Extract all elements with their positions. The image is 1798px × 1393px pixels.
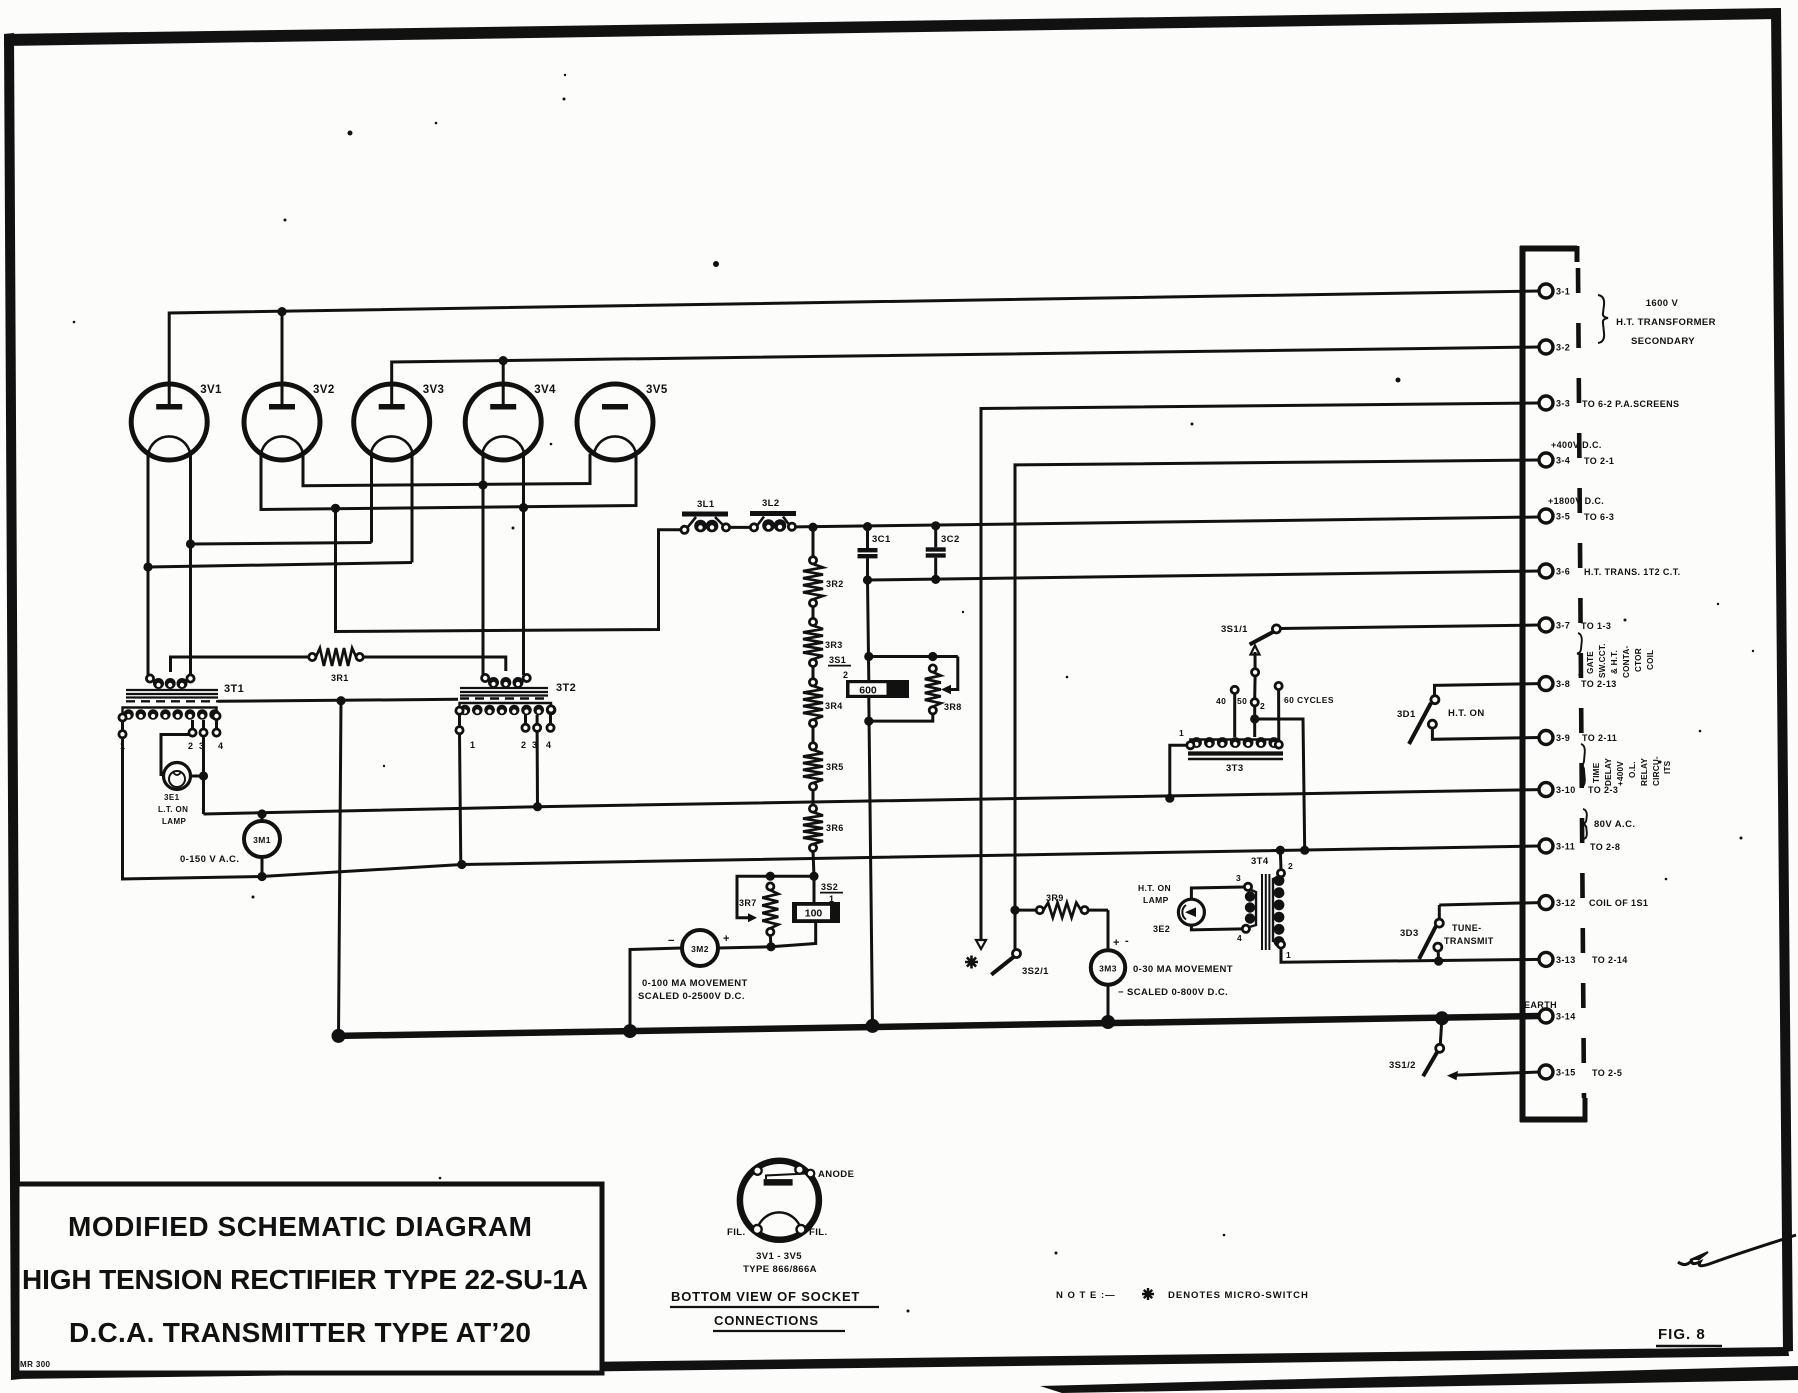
svg-text:1600 V: 1600 V <box>1646 298 1679 309</box>
svg-text:TO 2-5: TO 2-5 <box>1592 1068 1622 1078</box>
svg-text:2: 2 <box>521 740 526 750</box>
meter 3M2 (0-100 mA) <box>630 930 771 1031</box>
transformer 3T4 secondary winding <box>1273 861 1293 960</box>
transformer 3T3 tap 60 <box>1275 682 1334 741</box>
label: 1600V H.T. transformer secondary (3-1/3-2) <box>1598 295 1716 347</box>
wire: 3M1 top lead <box>257 809 266 821</box>
svg-text:3-7: 3-7 <box>1556 621 1570 631</box>
relay coil 3S1/2 (600 ohm) <box>828 655 909 698</box>
terminal 3-10 <box>1539 783 1576 797</box>
svg-text:4: 4 <box>1237 933 1242 943</box>
svg-text:L.T. ON: L.T. ON <box>158 805 188 814</box>
svg-text:3V4: 3V4 <box>534 384 556 396</box>
transformer 3T2 secondary winding <box>456 703 556 715</box>
svg-text:H.T. TRANS. 1T2 C.T.: H.T. TRANS. 1T2 C.T. <box>1584 567 1681 577</box>
terminal 3-12 <box>1539 896 1576 910</box>
3T2 secondary tap 3 <box>532 715 541 750</box>
wire: 3L1 to 3L2 <box>730 526 751 529</box>
resistor 3R3 <box>803 607 843 667</box>
svg-text:TO 1-3: TO 1-3 <box>1581 621 1611 631</box>
terminal 3-6 <box>1539 564 1570 578</box>
rectifier valve 3V1 <box>131 384 222 460</box>
svg-text:CTOR: CTOR <box>1634 648 1643 672</box>
transformer 3T4 core <box>1251 856 1269 950</box>
svg-text:3-12: 3-12 <box>1556 898 1576 908</box>
svg-text:TYPE 866/866A: TYPE 866/866A <box>743 1264 817 1275</box>
svg-text:3S2/1: 3S2/1 <box>1022 966 1049 977</box>
wire: terminal 3-3 line down to micro-switch contact <box>976 403 1539 949</box>
svg-text:3T3: 3T3 <box>1226 763 1244 774</box>
svg-text:TO 6-3: TO 6-3 <box>1584 512 1614 522</box>
svg-text:TO 2-14: TO 2-14 <box>1592 955 1628 965</box>
svg-text:3-1: 3-1 <box>1556 287 1570 297</box>
svg-text:CONTA-: CONTA- <box>1622 646 1631 678</box>
svg-text:TO 2-3: TO 2-3 <box>1588 785 1618 795</box>
svg-text:3M3: 3M3 <box>1099 964 1117 974</box>
wire: 3M1 bottom lead <box>257 857 266 881</box>
svg-text:3V1: 3V1 <box>200 384 222 396</box>
svg-text:3R3: 3R3 <box>825 640 843 650</box>
transformer 3T3 core <box>1188 754 1283 775</box>
terminal 3-13 <box>1539 952 1576 966</box>
resistor 3R8 (shunt rheostat) <box>864 652 962 726</box>
wire: chain bottom junction <box>766 872 819 881</box>
terminal 3-9 <box>1539 731 1570 745</box>
svg-text:+400V: +400V <box>1616 761 1625 786</box>
3T2 secondary tap 4 <box>546 714 554 750</box>
svg-text:TO 2-13: TO 2-13 <box>1581 679 1617 689</box>
wire: 3T2 tap1 down to 3-11 line <box>457 734 466 869</box>
terminal 3-5 <box>1539 509 1570 523</box>
svg-text:2: 2 <box>1288 861 1293 871</box>
transformer 3T1 core <box>126 683 244 701</box>
svg-text:3D1: 3D1 <box>1397 709 1416 720</box>
wire: 3C1 branch down through coil 3S1/2 to earth bus <box>864 580 873 1026</box>
svg-text:40: 40 <box>1216 696 1226 706</box>
resistor 3R4 <box>803 667 843 743</box>
switch 3S1/2 (earth to 3-15 arrow) <box>1389 1018 1539 1080</box>
micro-switch symbol (asterisk) <box>965 956 978 969</box>
svg-text:3R2: 3R2 <box>826 579 844 589</box>
resistor 3R5 <box>803 743 844 791</box>
svg-text:1: 1 <box>829 894 834 904</box>
svg-text:− SCALED 0-800V D.C.: − SCALED 0-800V D.C. <box>1118 987 1228 998</box>
wire: 3T3 centre tap junction down to 3-11 line <box>1255 719 1310 855</box>
label: bottom view of socket connections <box>670 1289 879 1331</box>
choke 3L1 <box>681 499 730 533</box>
brace 3-9/3-10 <box>1580 744 1585 787</box>
svg-text:3-9: 3-9 <box>1556 733 1570 743</box>
terminal 3-3 <box>1539 396 1570 410</box>
svg-text:EARTH: EARTH <box>1524 1000 1557 1010</box>
svg-text:3T1: 3T1 <box>224 683 244 695</box>
earth bus wire to terminal 3-14 <box>332 1011 1540 1043</box>
wire: 3-11 line to 3T4 primary 2 <box>1276 846 1285 870</box>
terminal 3-7 <box>1539 618 1570 632</box>
svg-text:2: 2 <box>843 670 848 680</box>
svg-text:3V2: 3V2 <box>313 384 335 396</box>
3T2 secondary tap 1 <box>456 714 476 750</box>
wire: 3V3/3V4 anodes to terminal 3-2 <box>392 347 1539 404</box>
svg-text:3M2: 3M2 <box>691 944 709 954</box>
terminal 3-4 <box>1539 453 1570 467</box>
svg-text:+1800V D.C.: +1800V D.C. <box>1548 496 1604 506</box>
svg-text:3-11: 3-11 <box>1556 842 1575 852</box>
terminal 3-11 <box>1539 839 1575 853</box>
svg-text:H.T. ON: H.T. ON <box>1138 883 1171 893</box>
svg-text:3C1: 3C1 <box>872 534 891 545</box>
wire: 3S1/1 to terminal 3-7 <box>1280 625 1539 629</box>
wire: 3V4 left filament to 3T2 primary <box>482 454 485 675</box>
svg-text:3S1/1: 3S1/1 <box>1221 624 1248 635</box>
meter 3M1 (0-150 V A.C.) <box>180 821 280 865</box>
svg-text:3R1: 3R1 <box>331 673 349 683</box>
wire: 3T4 terminal 1 to 3D3 and terminal 3-13 <box>1281 948 1539 966</box>
svg-text:2: 2 <box>188 741 193 751</box>
svg-text:3D3: 3D3 <box>1400 928 1419 939</box>
transformer 3T2 core <box>460 682 576 699</box>
wire: 3T2 tap3 down to 3-10 line <box>533 731 542 811</box>
svg-text:MR 300: MR 300 <box>20 1360 51 1369</box>
wire: 3T3 terminal 1 to 3-10 line <box>1165 728 1187 803</box>
label: +400V D.C. / TO 2-1 <box>1551 440 1614 466</box>
svg-text:TO 2-11: TO 2-11 <box>1582 733 1617 743</box>
resistor 3R1 (3T1 centre tap to 3T2 centre tap) <box>171 648 506 683</box>
transformer 3T1 primary winding <box>146 675 194 689</box>
transformer 3T4 primary winding <box>1236 873 1256 943</box>
label: FIG. 8 <box>1656 1326 1722 1346</box>
title block <box>17 1184 602 1373</box>
svg-text:3R4: 3R4 <box>825 701 843 711</box>
svg-text:3S1/2: 3S1/2 <box>1389 1060 1416 1071</box>
svg-text:3-13: 3-13 <box>1556 955 1576 965</box>
3T1 secondary tap 3 <box>199 720 207 751</box>
svg-text:H.T. ON: H.T. ON <box>1448 708 1485 719</box>
svg-text:+: + <box>1113 937 1120 949</box>
svg-text:FIL.: FIL. <box>727 1227 746 1238</box>
label: time delay relay circuits (rotated) <box>1592 756 1672 786</box>
svg-text:LAMP: LAMP <box>1143 895 1169 905</box>
rectifier valve 3V3 <box>354 384 445 460</box>
svg-text:−: − <box>668 935 675 947</box>
wire: 3V1 left filament to 3T1 primary, branch to 3V3 right filament <box>143 454 412 675</box>
svg-text:3T2: 3T2 <box>556 682 576 694</box>
svg-text:N O T E :—: N O T E :— <box>1056 1290 1116 1301</box>
svg-text:3R6: 3R6 <box>826 823 844 833</box>
svg-text:3-8: 3-8 <box>1556 679 1570 689</box>
svg-text:& H.T.: & H.T. <box>1610 650 1619 674</box>
svg-text:3R5: 3R5 <box>826 762 844 772</box>
meter 3M3 (0-30 mA) <box>1091 910 1233 1022</box>
svg-text:4: 4 <box>546 740 551 750</box>
wire: 3V2 right filament bus to 3V5 left filament (3V4 left joins) <box>303 454 590 490</box>
wire: 3T1 tap1 / 3M1 / 3T2 tap1 line to terminal 3-11 <box>123 738 1540 879</box>
svg-text:0-100 MA MOVEMENT: 0-100 MA MOVEMENT <box>642 978 748 989</box>
svg-text:1: 1 <box>1179 728 1184 738</box>
svg-text:CONNECTIONS: CONNECTIONS <box>714 1313 819 1328</box>
svg-text:4: 4 <box>218 741 223 751</box>
rectifier valve 3V4 <box>465 384 556 460</box>
terminal 3-15 <box>1539 1065 1576 1079</box>
terminal 3-14 <box>1539 1009 1576 1023</box>
svg-text:80V A.C.: 80V A.C. <box>1594 819 1635 830</box>
svg-text:H.T. TRANSFORMER: H.T. TRANSFORMER <box>1616 317 1716 328</box>
svg-text:CIRCU-: CIRCU- <box>1652 756 1661 786</box>
transformer 3T1 secondary winding <box>119 708 220 722</box>
svg-text:3V5: 3V5 <box>646 384 668 396</box>
svg-text:0-30 MA MOVEMENT: 0-30 MA MOVEMENT <box>1133 964 1233 975</box>
resistor 3R9 <box>1010 893 1108 918</box>
svg-text:FIG. 8: FIG. 8 <box>1658 1326 1706 1343</box>
svg-text:91.: 91. <box>1793 36 1798 67</box>
wire: 3T1 tap3 via lamp junction to line 3-10 <box>199 736 208 814</box>
svg-text:50: 50 <box>1237 696 1247 706</box>
brace 3-10/3-11 <box>1582 809 1586 839</box>
svg-text:RELAY: RELAY <box>1640 758 1649 786</box>
socket filament pins <box>727 1212 828 1238</box>
terminal strip outline <box>1520 246 1587 1122</box>
svg-text:3L1: 3L1 <box>697 499 715 510</box>
wire: filament bus feed to choke 3L1 <box>331 504 681 632</box>
label: socket valve types <box>743 1251 817 1275</box>
svg-text:TO 2-8: TO 2-8 <box>1590 842 1620 852</box>
wire: capacitor bottoms to terminal 3-6 <box>863 571 1539 585</box>
svg-text:DENOTES MICRO-SWITCH: DENOTES MICRO-SWITCH <box>1168 1290 1309 1301</box>
svg-text:3-6: 3-6 <box>1556 567 1570 577</box>
label: +1800V D.C. / TO 6-3 <box>1548 496 1614 522</box>
svg-text:GATE: GATE <box>1586 651 1595 674</box>
svg-text:TO 6-2 P.A.SCREENS: TO 6-2 P.A.SCREENS <box>1582 399 1679 409</box>
svg-text:60 CYCLES: 60 CYCLES <box>1284 695 1334 705</box>
svg-text:LAMP: LAMP <box>162 817 187 826</box>
3T1 secondary tap 4 <box>213 720 224 752</box>
svg-text:SCALED 0-2500V D.C.: SCALED 0-2500V D.C. <box>638 991 745 1002</box>
switch 3D3 (TUNE-TRANSMIT) to terminal 3-12 <box>1400 903 1539 962</box>
svg-text:FIL.: FIL. <box>809 1227 828 1238</box>
note: micro-switch <box>1056 1288 1309 1301</box>
svg-text:TUNE-: TUNE- <box>1452 923 1482 933</box>
svg-text:3R7: 3R7 <box>739 898 757 908</box>
svg-text:ITS: ITS <box>1663 760 1672 774</box>
3T2 secondary tap 2 <box>521 715 529 750</box>
svg-text:3T4: 3T4 <box>1251 856 1269 867</box>
capacitor 3C2 <box>926 526 960 580</box>
svg-text:600: 600 <box>859 684 877 696</box>
transformer 3T3 winding <box>1187 737 1283 749</box>
svg-text:COIL: COIL <box>1646 650 1655 670</box>
potentiometer 3R7 <box>737 876 778 947</box>
svg-text:TRANSMIT: TRANSMIT <box>1444 936 1494 946</box>
terminal 3-1 <box>1539 284 1570 298</box>
svg-text:O.L.: O.L. <box>1628 761 1637 778</box>
transformer 3T3 tap 50 (centre) <box>1237 696 1265 737</box>
svg-text:3: 3 <box>1236 873 1241 883</box>
svg-text:2: 2 <box>1260 701 1265 711</box>
svg-text:D.C.A. TRANSMITTER TYPE AT’: D.C.A. TRANSMITTER TYPE AT’20 <box>69 1317 531 1348</box>
svg-text:TIME: TIME <box>1592 762 1601 783</box>
svg-text:-: - <box>1125 935 1129 947</box>
svg-text:3M1: 3M1 <box>253 835 271 845</box>
svg-text:1: 1 <box>470 740 475 750</box>
wire: 3T1 tap3 / 3M1 / 3T2 tap3 line to terminal 3-10 <box>204 790 1540 814</box>
svg-text:3-5: 3-5 <box>1556 512 1570 522</box>
svg-text:3E1: 3E1 <box>164 793 180 802</box>
svg-text:+: + <box>723 933 730 945</box>
lamp 3E1 (L.T. ON LAMP) <box>158 735 204 827</box>
rectifier valve 3V5 <box>577 384 668 460</box>
svg-text:3S2: 3S2 <box>821 882 838 892</box>
svg-text:3-14: 3-14 <box>1556 1012 1576 1022</box>
svg-text:3V3: 3V3 <box>423 384 445 396</box>
wire: terminal 3-4 line down to switch 3S2/1 blade <box>1015 460 1539 950</box>
svg-text:3E2: 3E2 <box>1153 924 1170 934</box>
switch 3D1 (H.T. ON) to terminals 3-8 / 3-9 <box>1397 684 1539 744</box>
valve socket bottom view <box>740 1161 819 1240</box>
svg-text:3V1 - 3V5: 3V1 - 3V5 <box>756 1251 802 1262</box>
transformer 3T3 tap 40 <box>1216 686 1238 737</box>
wire: 3V1/3V2 anodes to terminal 3-1 <box>169 291 1539 404</box>
svg-text:3S1: 3S1 <box>829 655 846 665</box>
3T1 secondary tap 1 <box>119 721 126 751</box>
svg-text:+400V D.C.: +400V D.C. <box>1551 440 1602 450</box>
3T1 secondary tap 2 <box>188 720 196 751</box>
rectifier valve 3V2 <box>244 384 335 460</box>
svg-text:3-2: 3-2 <box>1556 343 1570 353</box>
terminal 3-2 <box>1539 340 1570 354</box>
brace 3-7/3-8 <box>1577 633 1582 675</box>
svg-text:MODIFIED SCHEMATIC DIAGRAM: MODIFIED SCHEMATIC DIAGRAM <box>68 1211 532 1242</box>
svg-text:COIL OF 1S1: COIL OF 1S1 <box>1589 898 1648 908</box>
relay coil 3S2/1 (100 ohm) <box>766 876 843 951</box>
svg-text:3-10: 3-10 <box>1556 785 1576 795</box>
transformer 3T2 primary winding <box>482 674 531 688</box>
lamp 3E2 (H.T. ON LAMP) <box>1138 883 1244 934</box>
svg-text:1: 1 <box>1286 950 1291 960</box>
svg-text:3-15: 3-15 <box>1556 1068 1576 1078</box>
switch 3S1/1 <box>1221 624 1280 699</box>
terminal 3-8 <box>1539 677 1570 691</box>
svg-text:3C2: 3C2 <box>941 534 960 545</box>
svg-text:3L2: 3L2 <box>762 498 780 509</box>
svg-text:3-3: 3-3 <box>1556 399 1570 409</box>
switch 3S2/1 blade <box>991 950 1049 978</box>
svg-text:BOTTOM VIEW OF SOCKET: BOTTOM VIEW OF SOCKET <box>671 1289 860 1304</box>
wire: transformer screens to earth <box>218 696 458 1036</box>
svg-text:SECONDARY: SECONDARY <box>1631 336 1695 347</box>
resistor 3R2 <box>803 527 844 606</box>
svg-text:3R9: 3R9 <box>1046 893 1064 903</box>
svg-text:TO 2-1: TO 2-1 <box>1584 456 1614 466</box>
svg-text:100: 100 <box>805 908 823 920</box>
socket anode pin and bar <box>764 1169 855 1186</box>
svg-text:3-4: 3-4 <box>1556 456 1570 466</box>
resistor 3R6 <box>803 790 844 876</box>
label: gate sw cct & H.T. contactor coil (rotated) <box>1586 643 1655 678</box>
svg-text:HIGH TENSION RECTIFIER TYPE: HIGH TENSION RECTIFIER TYPE 22-SU-1A <box>22 1264 588 1295</box>
wire: 3V2 left filament bus to 3V5 right filament (3V4 right joins) <box>261 454 636 513</box>
wire: 3V1 right filament to 3T1 primary, branch to 3V3 left filament <box>186 454 372 675</box>
svg-text:SW.CCT.: SW.CCT. <box>1598 643 1607 678</box>
svg-text:3R8: 3R8 <box>944 702 962 712</box>
svg-text:0-150 V A.C.: 0-150 V A.C. <box>180 854 239 865</box>
svg-text:DELAY: DELAY <box>1604 758 1613 786</box>
wire: 3V4 right filament to 3T2 primary <box>522 454 525 675</box>
wire: 3L2 output to terminal 3-5 (+1800V) <box>796 517 1540 532</box>
choke 3L2 <box>750 498 796 532</box>
capacitor 3C1 <box>858 527 891 580</box>
svg-text:ANODE: ANODE <box>818 1169 854 1180</box>
